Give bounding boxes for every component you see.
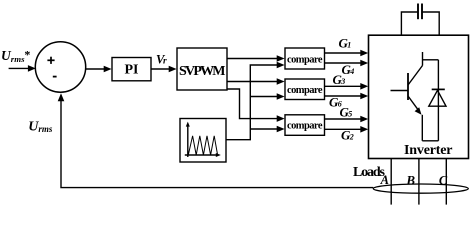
svg-text:5: 5 [348, 110, 352, 119]
wire gate signal G2 [325, 126, 369, 133]
label G4 [342, 62, 355, 77]
minus sign [53, 76, 57, 78]
label G3 [333, 72, 346, 87]
svg-text:B: B [405, 172, 415, 187]
summing junction [35, 42, 85, 92]
svg-text:A: A [380, 173, 389, 187]
dc-link wire right stub [422, 12, 439, 35]
wire gate signal G6 [325, 93, 369, 100]
carrier vertical axis [186, 122, 190, 157]
svg-text:rms: rms [38, 124, 53, 134]
svg-text:compare: compare [287, 121, 323, 132]
wire carrier bus to compare1 bottom [226, 62, 285, 140]
wire summing junction to PI [86, 66, 112, 73]
svg-text:4: 4 [349, 67, 354, 76]
comparator block 1 [285, 48, 325, 69]
IGBT transistor Q [391, 52, 423, 141]
wire carrier bus branch to compare3 bottom [250, 126, 284, 133]
svg-text:2: 2 [349, 133, 354, 142]
svg-text:*: * [24, 48, 30, 62]
load phase line C [445, 159, 447, 205]
wire emitter-diode junction [422, 140, 438, 142]
comparator block 3 [285, 115, 325, 136]
label G6 [329, 95, 342, 110]
label Urms feedback [28, 120, 53, 135]
load ellipse [373, 184, 468, 193]
wire carrier bus branch to compare2 bottom [250, 93, 284, 100]
wire SVPWM ref2 to compare2 top [227, 78, 285, 85]
node Urms* reference input label [1, 48, 30, 64]
freewheeling diode D [423, 60, 447, 141]
dc-link wire left stub [401, 12, 417, 35]
svg-text:C: C [439, 173, 448, 187]
svg-text:compare: compare [287, 85, 323, 96]
wire PI to SVPWM [151, 66, 177, 73]
svg-text:1: 1 [347, 40, 351, 49]
comparator block 2 [285, 79, 325, 100]
svg-text:SVPWM: SVPWM [179, 64, 226, 79]
plus sign [47, 57, 54, 64]
carrier wave generator block [180, 119, 226, 163]
carrier triangle wave [188, 136, 217, 155]
wire gate signal G3 [325, 83, 369, 90]
wire reference input arrow [9, 65, 36, 72]
inverter block [369, 35, 469, 158]
svg-text:compare: compare [287, 54, 323, 65]
load phase line A [390, 159, 392, 205]
svg-text:PI: PI [125, 63, 139, 78]
wire SVPWM ref1 to compare1 top [227, 55, 285, 62]
controller PI [112, 58, 151, 81]
node Vr label [156, 52, 167, 66]
wire SVPWM ref3 to compare3 top [227, 89, 285, 122]
svg-text:r: r [163, 56, 167, 66]
wire gate signal G1 [325, 50, 369, 57]
wire gate signal G4 [325, 60, 369, 67]
carrier horizontal axis [185, 153, 221, 157]
label G1 [339, 35, 352, 50]
load phase line B [418, 159, 420, 205]
svg-text:rms: rms [11, 54, 25, 64]
wire gate signal G5 [325, 116, 369, 123]
label G2 [341, 128, 354, 143]
svg-text:Inverter: Inverter [404, 143, 453, 158]
dc-link capacitor [418, 4, 422, 20]
svg-text:3: 3 [340, 77, 345, 86]
block SVPWM [177, 48, 227, 90]
wire feedback Urms [58, 93, 374, 187]
label G5 [340, 105, 353, 120]
